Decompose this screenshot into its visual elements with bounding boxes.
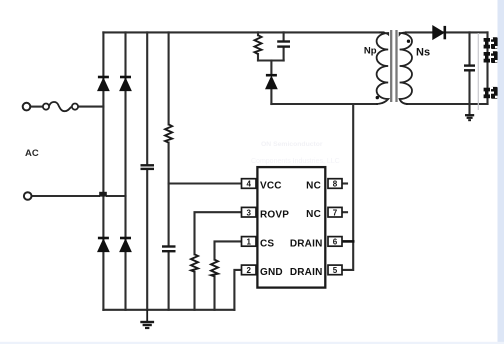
T1 secondary polarity dot [407,40,410,43]
capacitor C4 (output) [464,66,475,71]
transformer T1 secondary winding Ns [400,32,412,104]
fuse F1 [43,102,78,111]
AC source terminal L [23,103,31,111]
ground (primary) [140,310,154,328]
svg-text:Ns: Ns [416,47,430,59]
wire: snubber diode anode lead [270,89,272,105]
svg-text:AC: AC [25,148,39,159]
wire: bridge right leg (vertical x=125.5) [124,32,126,309]
resistor R1 (startup, x=168.6) [165,124,172,142]
diode D3 (bridge, left bottom) [98,238,109,252]
wire: startup leg bottom [168,252,170,310]
wire: CS wire to pin 1 [215,241,242,259]
U1 pin 5 box (DRAIN) [328,265,342,275]
wire: bridge left leg (vertical x=103.4) [102,32,104,309]
output terminal J1-2 [483,51,497,63]
wire: bottom ground bus [103,309,234,311]
svg-text:7: 7 [333,208,338,217]
U1 pin 2 box (GND) [242,265,257,275]
svg-text:2: 2 [246,266,251,275]
wire: VCC wire to pin 4 [169,182,242,184]
wire: drain vertical to pins 6,5 [342,104,353,270]
wire: output cap top lead [468,32,470,65]
svg-text:Components Industries, LLC: Components Industries, LLC [251,158,340,165]
wire: snubber resistor bottom lead [257,54,259,61]
capacitor C2 (VCC) [162,247,176,252]
wire: AC neutral horizontal [32,195,99,197]
svg-text:5: 5 [333,266,338,275]
svg-text:CS: CS [260,238,274,249]
svg-text:GND: GND [260,267,283,278]
output terminal J1-3 [483,87,497,99]
wire: ROVP resistor to bus [193,272,195,310]
U1 pin 6 box (DRAIN) [328,237,342,247]
wire: pin 8 stub [342,182,347,184]
resistor R3 (CS, x=214.5) [211,260,218,277]
T1 primary polarity dot [376,96,379,99]
diode D6 (output rectifier) [433,26,445,39]
node: crossover hop on AC neutral [99,192,107,197]
diode D2 (bridge, right top) [120,77,131,91]
ground (secondary) [465,115,474,120]
U1 pin 1 box (CS) [242,237,257,247]
svg-text:4: 4 [246,180,251,189]
wire: snubber RC join [258,59,284,61]
wire: snubber cap bottom lead [283,47,285,60]
svg-text:ROVP: ROVP [260,209,289,220]
wire: top HV bus [103,31,383,33]
U1 pin 7 box (NC) [328,207,342,217]
wire: snubber cap top lead [283,32,285,41]
svg-text:8: 8 [333,180,338,189]
wire: pin 6 stub to drain [342,240,353,243]
wire: snubber resistor top lead [257,32,259,35]
resistor R2 (ROVP, x=194.5) [191,254,198,271]
resistor R4 (snubber, x=258) [255,35,262,54]
svg-text:1: 1 [246,238,251,247]
wire: AC line to bridge [31,106,43,108]
wire: bulk cap leg upper (vertical x=147.2) [146,32,148,165]
wire: ROVP wire to pin 3 [195,212,242,254]
AC source terminal N [24,192,32,200]
U1 pin 3 box (ROVP) [242,207,257,217]
wire: startup leg top (vertical x=168.6) [168,32,170,124]
svg-text:DRAIN: DRAIN [290,238,323,249]
capacitor C1 (bulk) [141,165,155,169]
diode D4 (bridge, right bottom) [120,238,131,252]
U1 pin 4 box (VCC) [242,179,257,189]
svg-text:ON Semiconductor: ON Semiconductor [261,141,323,148]
controller IC U1 body [257,167,325,288]
diode D1 (bridge, left top) [98,77,109,91]
wire: secondary bottom rail [407,103,488,105]
wire: output cap bottom lead to ground [468,71,470,115]
wire: startup leg middle [168,143,170,246]
transformer T1 core [391,30,396,102]
output terminal J1-1 [483,37,497,49]
svg-text:NC: NC [306,180,321,191]
wire: primary bottom / drain node [271,103,377,105]
svg-text:NC: NC [306,209,321,220]
capacitor C3 (snubber) [277,42,290,47]
transformer T1 primary winding Np [376,32,388,104]
diode D5 (snubber clamp) [266,75,277,89]
wire: CS resistor to bus [213,276,215,309]
U1 pin 8 box (NC) [328,179,342,189]
svg-text:VCC: VCC [260,181,282,192]
wire: pin 7 stub [342,211,347,213]
svg-text:DRAIN: DRAIN [290,267,323,278]
svg-text:Np: Np [364,46,377,57]
wire: bulk cap leg lower [146,170,148,310]
wire: secondary top rail [406,31,488,33]
wire: AC neutral after hop [107,195,126,197]
wire: output right rail [486,32,488,104]
wire: ghost line near right rail [477,33,479,110]
wire: fuse to bridge left leg [79,106,104,108]
wire: GND pin 2 to bus [234,270,241,310]
wire: snubber diode cathode lead [270,61,272,76]
svg-text:3: 3 [246,208,251,217]
svg-text:6: 6 [333,238,338,247]
